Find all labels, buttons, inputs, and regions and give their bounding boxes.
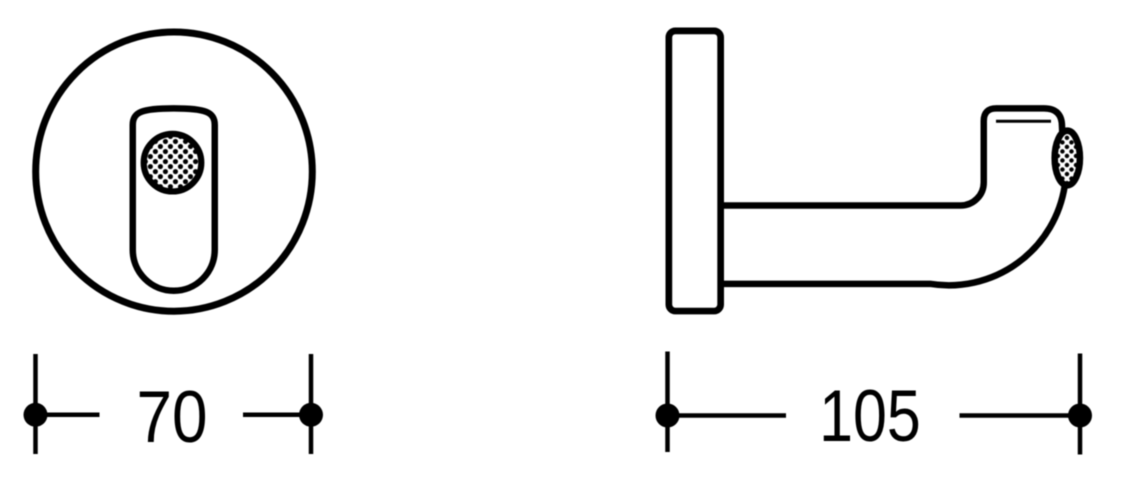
front view: outer circle (rosette, dia 70) [36,32,313,311]
side view: tip insert halftone ellipse [1055,131,1080,186]
dimension 70: right leader segment [243,413,311,418]
side view: cap seam line [996,120,1051,123]
dimension 70: right extension line [309,354,314,454]
dimension 70: left dot [24,403,48,427]
dimension 105: right leader segment [960,413,1081,418]
dimension 70: right dot [299,403,323,427]
front view: screw head halftone fill [144,134,202,192]
svg-text:105: 105 [819,376,921,457]
dimension 105: left extension line [665,352,670,453]
front view: hook body capsule outline [133,108,215,290]
front view: screw head ring [144,134,202,192]
dimension 105: right dot [1068,404,1092,428]
dimension 70: left leader segment [36,413,100,418]
dimension 70: left extension line [33,354,38,454]
side view: hook arm outline [721,108,1065,285]
side view: wall plate [669,31,721,311]
dimension 105: right extension line [1078,354,1083,455]
dimension 105: left leader segment [668,413,787,418]
dimension 105: left dot [656,404,680,428]
svg-text:70: 70 [136,376,207,458]
